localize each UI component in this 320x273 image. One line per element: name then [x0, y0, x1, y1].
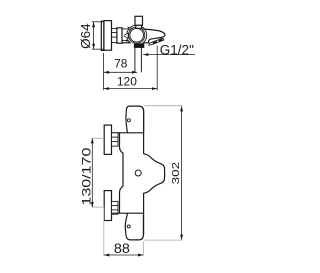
valve body step	[122, 29, 129, 41]
dim 78	[104, 53, 138, 90]
svg-text:130/170: 130/170	[79, 147, 93, 205]
svg-text:G1/2": G1/2"	[160, 43, 194, 58]
wall plate thin rect	[101, 21, 104, 50]
G1/2 leader + label	[143, 54, 195, 56]
outer circle	[127, 25, 147, 45]
flange rect	[104, 21, 112, 51]
body left edge	[120, 133, 124, 213]
svg-text:88: 88	[114, 240, 130, 256]
body bottom line	[122, 42, 149, 44]
svg-text:302: 302	[170, 162, 182, 185]
body center hole	[135, 170, 141, 176]
black outlet under body	[134, 43, 144, 48]
svg-text:120: 120	[117, 75, 137, 89]
spout	[143, 29, 165, 43]
svg-text:78: 78	[114, 56, 128, 70]
top handle	[104, 125, 118, 154]
dim 120	[104, 46, 157, 91]
handle circle group with masked bottom	[124, 25, 149, 48]
inner rings	[129, 27, 145, 43]
bottom handle	[104, 191, 118, 221]
mask bottom of circle	[124, 43, 149, 47]
right edge + protrusion	[144, 111, 165, 235]
outlet pipe	[135, 48, 142, 72]
ribbed connector	[112, 29, 117, 43]
dim 302	[144, 106, 182, 240]
ears/spikes	[125, 27, 132, 43]
svg-text:Ø64: Ø64	[79, 23, 93, 49]
bottom cap	[112, 213, 143, 240]
aerator under spout tip	[149, 38, 164, 45]
top-left spike	[128, 27, 132, 30]
dim 130/170	[93, 138, 105, 207]
left lever tab	[125, 33, 129, 38]
bottom-left spike	[126, 40, 129, 43]
dim 88	[104, 207, 144, 256]
knob on top	[135, 16, 143, 28]
valve body rect	[117, 28, 122, 43]
dim Ø64	[92, 22, 104, 49]
top cap	[112, 106, 144, 133]
